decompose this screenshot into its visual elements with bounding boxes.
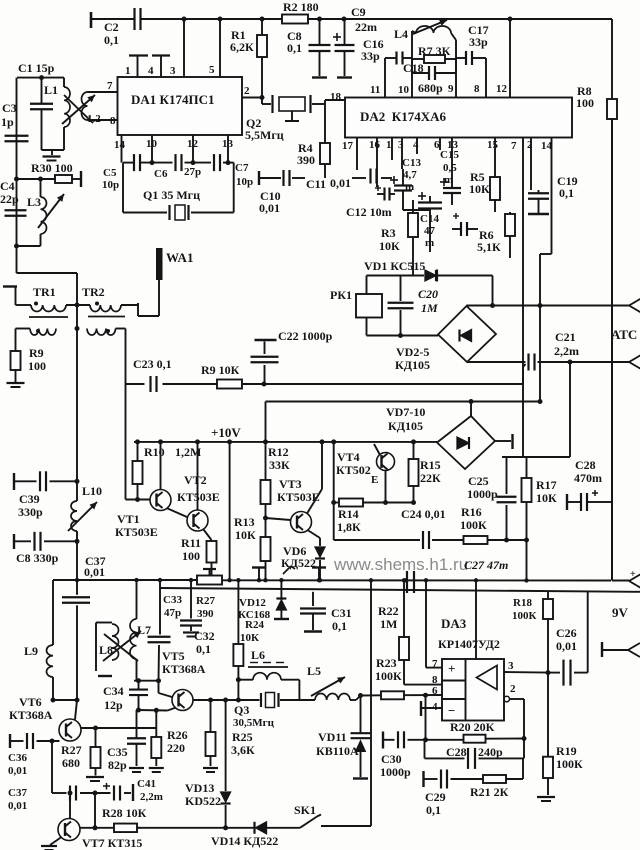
inductor L10 winding — [71, 501, 77, 531]
svg-text:КТ503Е: КТ503Е — [115, 525, 158, 539]
inductor L9 winding — [46, 645, 53, 677]
resistor R28 — [114, 824, 140, 833]
junction C35 top — [136, 708, 141, 713]
junction C21 right node — [568, 360, 573, 365]
svg-text:L9: L9 — [24, 644, 38, 658]
inductor L3 leads — [40, 179, 42, 197]
capacitor C36 — [27, 733, 33, 749]
op-amp DA3 body — [442, 659, 504, 721]
wire pin 3 DA1 to rail — [183, 19, 185, 77]
svg-text:m: m — [444, 174, 453, 186]
svg-text:C28: C28 — [575, 458, 596, 472]
terminal bar left of C8-330p — [13, 534, 15, 549]
ground below R27-680 — [86, 777, 104, 781]
resistor R27 390 — [197, 576, 222, 585]
junction pin6 C30 column — [423, 693, 428, 698]
resistor R9 100 — [11, 351, 21, 382]
ground below L1 — [43, 157, 61, 161]
wire VT5 base — [158, 681, 160, 693]
resistor R21 body — [483, 775, 506, 783]
capacitor C7 — [214, 154, 220, 171]
terminal arrow ATC upper — [629, 299, 640, 313]
resistor R27 680 — [91, 728, 101, 776]
svg-text:C39: C39 — [19, 492, 40, 506]
open end below C9 — [337, 76, 352, 78]
svg-text:VD1 КС515: VD1 КС515 — [364, 259, 425, 273]
line ATC lower — [467, 361, 526, 363]
ground below R26 — [149, 768, 164, 772]
svg-text:390: 390 — [297, 153, 315, 167]
svg-text:10К: 10К — [536, 491, 557, 505]
svg-text:VD11: VD11 — [318, 730, 347, 744]
wire L5 to VD11 node — [350, 699, 356, 701]
wire pin 7 column from bus — [425, 580, 427, 668]
cross line L8 L7 — [104, 634, 138, 661]
wire VT3 collector up — [307, 489, 322, 514]
wire L9 corner from bus — [52, 580, 54, 645]
svg-text:470m: 470m — [574, 471, 602, 485]
inductor L4 — [416, 26, 451, 33]
plus near C15b — [453, 215, 459, 217]
wire VT4 collector down — [385, 471, 387, 503]
junction VT4 R14 node — [383, 500, 388, 505]
junction C32 bottom — [156, 678, 161, 683]
svg-text:L7: L7 — [137, 623, 151, 637]
svg-text:+10V: +10V — [211, 425, 241, 440]
capacitor C22 plates — [251, 357, 279, 363]
junction x229 rail — [227, 439, 232, 444]
ground below R9 — [7, 383, 25, 387]
junction top rail pin12 — [508, 17, 513, 22]
ground below VT7 — [41, 846, 57, 850]
pin 2 bubble — [504, 696, 510, 702]
svg-text:33К: 33К — [269, 458, 290, 472]
svg-text:10К: 10К — [469, 182, 490, 196]
wire WA1 down — [158, 280, 160, 316]
capacitor C15 — [440, 148, 461, 205]
svg-text:5,1К: 5,1К — [477, 240, 501, 254]
wire R21 line — [424, 778, 438, 780]
wire pin14 DA2 jog — [540, 253, 552, 255]
wire VT2 emitter — [204, 530, 212, 541]
svg-text:1М: 1М — [380, 617, 397, 631]
svg-text:0,1: 0,1 — [104, 33, 119, 47]
svg-text:0,01: 0,01 — [259, 201, 280, 215]
junction bus1 pin7 opamp — [402, 578, 406, 582]
wire DA3 supply column — [475, 580, 477, 659]
svg-text:C6: C6 — [154, 168, 168, 180]
wire VT5 emitter — [168, 708, 177, 711]
wire pin6 down to C30 line — [425, 695, 427, 740]
junction x334 R14 — [331, 500, 336, 505]
svg-text:С18: С18 — [403, 61, 424, 75]
wire C28 470m to right rail — [600, 501, 611, 503]
capacitor C25 plates — [497, 497, 517, 503]
svg-text:R12: R12 — [268, 445, 289, 459]
junction bus1 x229 — [227, 578, 231, 582]
terminal bar C36 — [9, 734, 11, 748]
wire pin 8 DA2 up to C17 — [485, 58, 487, 98]
svg-text:1: 1 — [125, 65, 131, 77]
capacitor C6 — [176, 154, 182, 171]
svg-text:C28: C28 — [446, 745, 467, 759]
svg-text:5,5Мгц: 5,5Мгц — [245, 128, 284, 142]
wire C3 branch — [16, 78, 18, 273]
capacitor C14 — [418, 192, 442, 218]
wire bridge right lead — [495, 440, 511, 442]
junction L3 top — [38, 177, 43, 182]
transistor VT6 — [59, 719, 81, 741]
junction bus1 R13 — [263, 578, 267, 582]
svg-text:R28 10К: R28 10К — [102, 806, 147, 820]
junction VT1 collector rail — [158, 439, 163, 444]
wire TR2 primary right lead — [121, 304, 138, 306]
svg-text:КР1407УД2: КР1407УД2 — [438, 637, 500, 651]
inductor L8 top bar — [96, 622, 112, 624]
wire VD6 to bus — [319, 560, 321, 580]
junction C6 C7 pin12 — [191, 160, 196, 165]
svg-text:0,01: 0,01 — [556, 639, 577, 653]
junction R10 top — [135, 439, 140, 444]
capacitor C10 — [284, 170, 290, 186]
wire VT1 collector to rail — [160, 442, 162, 490]
svg-text:100: 100 — [576, 96, 594, 110]
svg-text:C30: C30 — [381, 752, 402, 766]
wire L6 left lead — [238, 679, 253, 681]
junction L3 bottom — [14, 244, 19, 249]
antenna WA1 — [156, 248, 163, 280]
wire relay column — [366, 276, 368, 295]
core line TR2 — [88, 316, 125, 318]
junction bus1 column x77 — [75, 578, 79, 582]
transistor VT5 — [172, 690, 193, 711]
cross line L1 L2 — [64, 95, 93, 123]
svg-text:C23 0,1: C23 0,1 — [133, 357, 172, 371]
ground below C33 — [183, 633, 199, 637]
svg-text:33p: 33p — [361, 49, 380, 63]
capacitor C12 — [377, 188, 395, 201]
svg-text:C33: C33 — [163, 594, 182, 606]
capacitor C11 — [371, 169, 377, 184]
junction top rail pin3 — [182, 17, 187, 22]
svg-text:VD12: VD12 — [239, 597, 266, 609]
wire VT1 base line — [126, 499, 151, 501]
wire pin 4 stub — [421, 707, 442, 709]
capacitor C24 — [423, 531, 429, 549]
junction R25 top — [208, 698, 213, 703]
junction C39 node — [75, 479, 80, 484]
junction bus1 T-terminal b — [317, 578, 321, 582]
svg-text:VT4: VT4 — [337, 450, 360, 464]
resistor R1 — [257, 19, 267, 98]
svg-text:DA2 К174ХА6: DA2 К174ХА6 — [360, 109, 446, 124]
zener bar VD1 — [436, 270, 438, 282]
svg-text:C37: C37 — [8, 787, 27, 799]
wire TR1 left terminal lead — [15, 287, 17, 306]
capacitor C1 — [30, 78, 53, 150]
pin 4 stub DA1 — [152, 54, 170, 56]
capacitor C41 — [114, 786, 120, 801]
wire VT4 emitter to rail — [374, 444, 380, 454]
junction bus1 C32 — [158, 578, 162, 582]
svg-text:1,8К: 1,8К — [337, 520, 361, 534]
wire VT7 emitter — [50, 837, 62, 845]
capacitor C32 plates — [148, 637, 171, 643]
junction C25 bottom on line — [504, 538, 509, 543]
ground below C35 — [129, 768, 144, 772]
resistor R4 — [320, 104, 330, 178]
svg-text:7: 7 — [511, 140, 517, 152]
svg-text:16: 16 — [369, 139, 381, 151]
lead C25 bottom — [506, 505, 508, 540]
capacitor C16 — [385, 52, 412, 65]
svg-text:R11: R11 — [181, 536, 201, 550]
wire right rail to 9V arrow — [612, 580, 629, 582]
wire x229 column — [229, 442, 231, 580]
wire pin 11 DA2 up — [384, 58, 386, 98]
svg-text:C3: C3 — [2, 101, 17, 115]
svg-text:VT6: VT6 — [19, 695, 42, 709]
svg-text:11: 11 — [370, 84, 380, 96]
svg-text:KD522: KD522 — [185, 794, 221, 808]
wire C18 left node — [411, 59, 413, 73]
junction top rail pin5 — [218, 17, 223, 22]
resistor R30 — [17, 175, 82, 183]
capacitor C15b — [452, 222, 478, 236]
junction C36 node — [50, 739, 55, 744]
terminal below L8 — [98, 675, 112, 677]
svg-text:C5: C5 — [103, 167, 117, 179]
resistor R18 — [543, 592, 553, 673]
capacitor C22 leads — [264, 342, 266, 355]
svg-text:47p: 47p — [164, 607, 181, 619]
junction VD13 top — [223, 698, 228, 703]
junction bus1 SK1 column — [369, 578, 373, 582]
svg-text:КД105: КД105 — [395, 358, 430, 372]
resistor R12 — [261, 442, 271, 518]
svg-text:С27 47m: С27 47m — [464, 558, 508, 572]
inductor L3 winding — [41, 197, 47, 234]
transistor VT7 — [58, 819, 80, 841]
inductor L1 — [63, 78, 65, 87]
svg-text:VT1: VT1 — [117, 512, 140, 526]
capacitor C8 — [309, 19, 331, 76]
C33 bottom bar — [190, 626, 192, 632]
terminal bar left of C30 — [382, 732, 384, 749]
ground below R25 — [203, 768, 218, 772]
capacitor C18 — [412, 66, 456, 80]
wire pin 8 DA1 to L2 — [88, 119, 119, 121]
svg-text:C32: C32 — [194, 629, 215, 643]
svg-text:0,01: 0,01 — [330, 176, 351, 190]
resistor R10 — [133, 442, 143, 500]
svg-text:2: 2 — [527, 139, 533, 151]
wire L4 left node — [412, 31, 416, 33]
wire L7 top to bus — [136, 580, 138, 619]
svg-text:R15: R15 — [420, 458, 441, 472]
svg-text:R2 180: R2 180 — [283, 0, 319, 14]
inductor L2 winding — [82, 92, 88, 120]
resistor R20 body — [464, 735, 486, 743]
IC DA2 body — [345, 98, 572, 138]
svg-text:КВ110А: КВ110А — [316, 744, 359, 758]
transistor VT4 — [377, 453, 395, 471]
svg-text:VT5: VT5 — [162, 649, 185, 663]
junction bus1 C33 — [189, 578, 193, 582]
inductor L7 winding — [130, 619, 137, 659]
svg-text:0,1: 0,1 — [332, 619, 347, 633]
wire VT6 collector out — [81, 727, 156, 729]
svg-text:DA1 К174ПС1: DA1 К174ПС1 — [131, 92, 214, 107]
relay PK1 body — [356, 294, 382, 318]
svg-text:L4: L4 — [394, 27, 408, 41]
svg-text:R3: R3 — [381, 226, 396, 240]
crystal Q3 — [238, 693, 315, 708]
svg-text:6,2К: 6,2К — [230, 40, 254, 54]
svg-text:5: 5 — [209, 64, 215, 76]
diode VD13 — [221, 792, 231, 804]
svg-text:VD14 КД522: VD14 КД522 — [211, 834, 278, 848]
wire pin 5 DA1 to rail — [219, 19, 221, 77]
junction R30 node — [14, 177, 19, 182]
core dashes L6 — [250, 662, 258, 664]
svg-text:0,1: 0,1 — [559, 186, 574, 200]
svg-text:1.2: 1.2 — [87, 113, 101, 125]
IC DA1 body — [118, 77, 243, 135]
wire y700 junction line — [53, 699, 77, 701]
wire top rail left of C2 — [91, 18, 134, 20]
wire L6 right lead — [281, 679, 299, 681]
wire VD11 lead — [360, 696, 362, 733]
svg-text:R26: R26 — [167, 728, 188, 742]
wire top rail C2 to R2 — [141, 18, 282, 20]
wire pin 16 DA2 down — [376, 138, 378, 188]
svg-text:100К: 100К — [460, 518, 487, 532]
capacitor C28 470m — [567, 493, 600, 511]
diode inside VD2-5 — [460, 330, 472, 342]
variable core arrow L1 L2 — [62, 95, 95, 124]
svg-text:100К: 100К — [375, 669, 402, 683]
wire pin 13 DA2 down — [451, 138, 453, 149]
wire right rail lower part — [611, 119, 613, 581]
svg-text:R7 3К: R7 3К — [418, 44, 451, 58]
wire pin 2 DA1 — [242, 97, 262, 99]
open end VD12 — [274, 618, 289, 620]
wire VT3 emitter to VD6 — [308, 530, 321, 538]
transformer TR1 secondary winding — [30, 329, 56, 336]
svg-text:C1 15p: C1 15p — [18, 61, 55, 75]
svg-text:VD7-10: VD7-10 — [386, 405, 425, 419]
svg-text:3: 3 — [398, 139, 404, 151]
capacitor C13 — [390, 169, 412, 210]
svg-text:VD13: VD13 — [185, 781, 214, 795]
node: top supply rail terminal — [90, 12, 93, 28]
svg-text:100: 100 — [182, 549, 200, 563]
svg-text:3,6К: 3,6К — [231, 743, 255, 757]
svg-text:VD2-5: VD2-5 — [396, 345, 429, 359]
wire TR2 right vertical — [137, 303, 139, 316]
resistor R13 — [261, 518, 271, 580]
svg-text:C41: C41 — [137, 778, 156, 790]
wire top rail corner down right — [611, 19, 613, 97]
svg-text:КТ368А: КТ368А — [162, 662, 206, 676]
wire R24 column — [237, 580, 239, 644]
junction VT2 collector rail — [195, 439, 200, 444]
svg-text:C35: C35 — [107, 745, 128, 759]
junction TR column top — [75, 303, 80, 308]
svg-text:C4: C4 — [0, 179, 15, 193]
terminal arrow +9V right — [629, 574, 640, 588]
wire pin 15 DA2 down — [494, 138, 496, 173]
zener diode VD12 lead — [280, 580, 282, 600]
terminal bar above bus b — [312, 566, 326, 568]
wire C32 column — [159, 580, 161, 635]
capacitor C27 bars — [407, 571, 414, 593]
svg-text:0,5: 0,5 — [443, 162, 457, 174]
svg-text:12p: 12p — [104, 698, 123, 712]
capacitor C33 plates — [180, 621, 202, 626]
svg-text:R13: R13 — [234, 515, 255, 529]
resistor R5 — [490, 172, 500, 212]
svg-text:TR2: TR2 — [82, 285, 105, 299]
svg-text:C29: C29 — [425, 790, 446, 804]
open terminal top left of TR1 — [3, 285, 17, 287]
wire pin 12 DA2 up to rail — [509, 19, 511, 98]
svg-text:R27: R27 — [196, 595, 215, 607]
resistor R15 — [409, 442, 419, 503]
svg-text:4: 4 — [148, 65, 154, 77]
svg-text:С13: С13 — [402, 157, 421, 169]
capacitor C31 plates — [300, 609, 326, 614]
svg-text:+: + — [630, 569, 636, 580]
junction R1 pin2 node — [260, 95, 265, 100]
svg-text:0,01: 0,01 — [84, 565, 105, 579]
capacitor C34 plates — [129, 681, 148, 709]
transformer TR2 primary winding — [90, 305, 121, 312]
wire C24 line — [334, 539, 420, 541]
svg-text:C21: C21 — [555, 330, 576, 344]
wire pin 2 to feedback column — [510, 698, 525, 700]
svg-text:10К: 10К — [235, 528, 256, 542]
svg-text:R30 100: R30 100 — [31, 161, 73, 175]
svg-text:C9: C9 — [351, 5, 366, 19]
svg-text:L10: L10 — [82, 484, 102, 498]
svg-text:TR1: TR1 — [33, 285, 56, 299]
svg-text:АТС: АТС — [611, 327, 637, 342]
junction output R18 R19 — [546, 670, 551, 675]
bus line 1 — [53, 579, 197, 581]
capacitor C33 lead — [190, 580, 192, 619]
wire y275 corner down to ATC line — [492, 276, 494, 306]
capacitor C2 — [135, 8, 141, 30]
junction R15 bottom — [411, 500, 416, 505]
wire TR2 secondary right lead down — [116, 328, 126, 330]
svg-text:C24 0,01: C24 0,01 — [401, 507, 446, 521]
svg-text:9V: 9V — [612, 605, 629, 620]
svg-text:0,01: 0,01 — [8, 765, 27, 777]
capacitor C17 — [456, 51, 486, 65]
svg-text:VT7 КТ315: VT7 КТ315 — [82, 836, 142, 850]
svg-text:390: 390 — [197, 608, 214, 620]
plus C28 470m — [592, 492, 598, 494]
resistor R24 body — [233, 644, 243, 666]
svg-text:22p: 22p — [0, 192, 19, 206]
bus line 2 — [160, 588, 640, 592]
transformer TR1 primary winding — [31, 305, 66, 312]
junction bus1 R24 — [236, 578, 240, 582]
wire pin 9 DA2 up to L4 — [455, 40, 457, 98]
wire VD1 line y275 — [367, 275, 425, 277]
